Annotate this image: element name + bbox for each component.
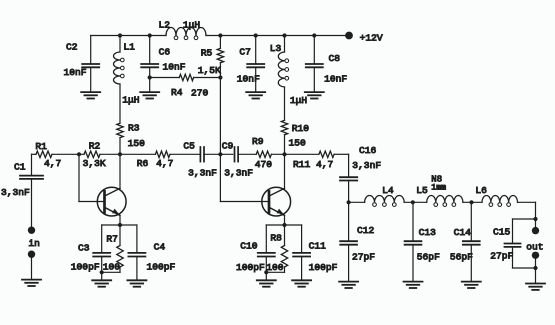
svg-text:10nF: 10nF <box>163 62 186 73</box>
svg-text:R5: R5 <box>201 47 213 58</box>
svg-text:4,7: 4,7 <box>44 158 61 169</box>
svg-text:L5: L5 <box>416 185 428 196</box>
svg-text:R9: R9 <box>252 136 264 147</box>
svg-text:3,3nF: 3,3nF <box>352 160 381 171</box>
svg-text:3,3nF: 3,3nF <box>224 167 253 178</box>
svg-text:3,3nF: 3,3nF <box>188 167 217 178</box>
svg-text:C15: C15 <box>493 227 511 238</box>
svg-text:150: 150 <box>289 138 307 149</box>
svg-text:R2: R2 <box>89 141 101 152</box>
svg-text:L2: L2 <box>159 20 171 31</box>
svg-text:R3: R3 <box>128 123 140 134</box>
svg-text:1μH: 1μH <box>290 95 307 106</box>
svg-text:100pF: 100pF <box>309 262 338 273</box>
svg-text:3,3K: 3,3K <box>83 158 106 169</box>
svg-text:56pF: 56pF <box>417 252 440 263</box>
svg-text:27pF: 27pF <box>352 252 375 263</box>
svg-text:R1: R1 <box>35 141 47 152</box>
svg-text:C10: C10 <box>240 241 258 252</box>
svg-text:10nF: 10nF <box>64 67 87 78</box>
svg-text:150: 150 <box>128 138 146 149</box>
svg-text:L6: L6 <box>475 185 487 196</box>
svg-text:100: 100 <box>266 262 284 273</box>
svg-text:27pF: 27pF <box>490 250 513 261</box>
svg-text:470: 470 <box>255 159 273 170</box>
svg-text:C14: C14 <box>454 227 472 238</box>
svg-text:C6: C6 <box>159 47 171 58</box>
svg-text:C5: C5 <box>183 141 195 152</box>
svg-text:L4: L4 <box>382 185 394 196</box>
svg-text:C9: C9 <box>222 141 234 152</box>
svg-text:56pF: 56pF <box>450 252 473 263</box>
svg-text:out: out <box>526 242 543 253</box>
svg-text:1μH: 1μH <box>183 20 200 31</box>
svg-text:C7: C7 <box>239 47 251 58</box>
svg-text:R8: R8 <box>270 233 282 244</box>
svg-text:C8: C8 <box>329 53 341 64</box>
svg-text:270: 270 <box>191 87 209 98</box>
svg-text:C11: C11 <box>309 241 327 252</box>
svg-text:C1: C1 <box>14 162 26 173</box>
svg-text:C3: C3 <box>78 243 90 254</box>
svg-text:C16: C16 <box>359 145 377 156</box>
svg-text:100pF: 100pF <box>147 262 176 273</box>
svg-text:10nF: 10nF <box>237 74 260 85</box>
svg-text:R6: R6 <box>137 158 149 169</box>
svg-text:C4: C4 <box>154 242 166 253</box>
svg-text:1μH: 1μH <box>122 95 139 106</box>
svg-text:100: 100 <box>103 262 121 273</box>
svg-text:+12V: +12V <box>360 32 383 43</box>
svg-text:C12: C12 <box>357 225 375 236</box>
svg-text:3,3nF: 3,3nF <box>1 187 30 198</box>
svg-text:R7: R7 <box>106 233 118 244</box>
svg-text:100pF: 100pF <box>236 262 265 273</box>
svg-text:C2: C2 <box>66 42 78 53</box>
svg-text:100pF: 100pF <box>71 262 100 273</box>
svg-text:4,7: 4,7 <box>156 158 173 169</box>
svg-text:R11 4,7: R11 4,7 <box>293 159 333 170</box>
svg-text:1mm: 1mm <box>431 184 446 193</box>
svg-text:in: in <box>28 238 40 249</box>
svg-text:1,5K: 1,5K <box>198 65 221 76</box>
svg-text:L1: L1 <box>123 42 135 53</box>
svg-text:L3: L3 <box>270 43 282 54</box>
svg-text:R10: R10 <box>292 123 310 134</box>
svg-text:10nF: 10nF <box>324 74 347 85</box>
svg-text:C13: C13 <box>419 227 437 238</box>
svg-text:R4: R4 <box>171 87 183 98</box>
